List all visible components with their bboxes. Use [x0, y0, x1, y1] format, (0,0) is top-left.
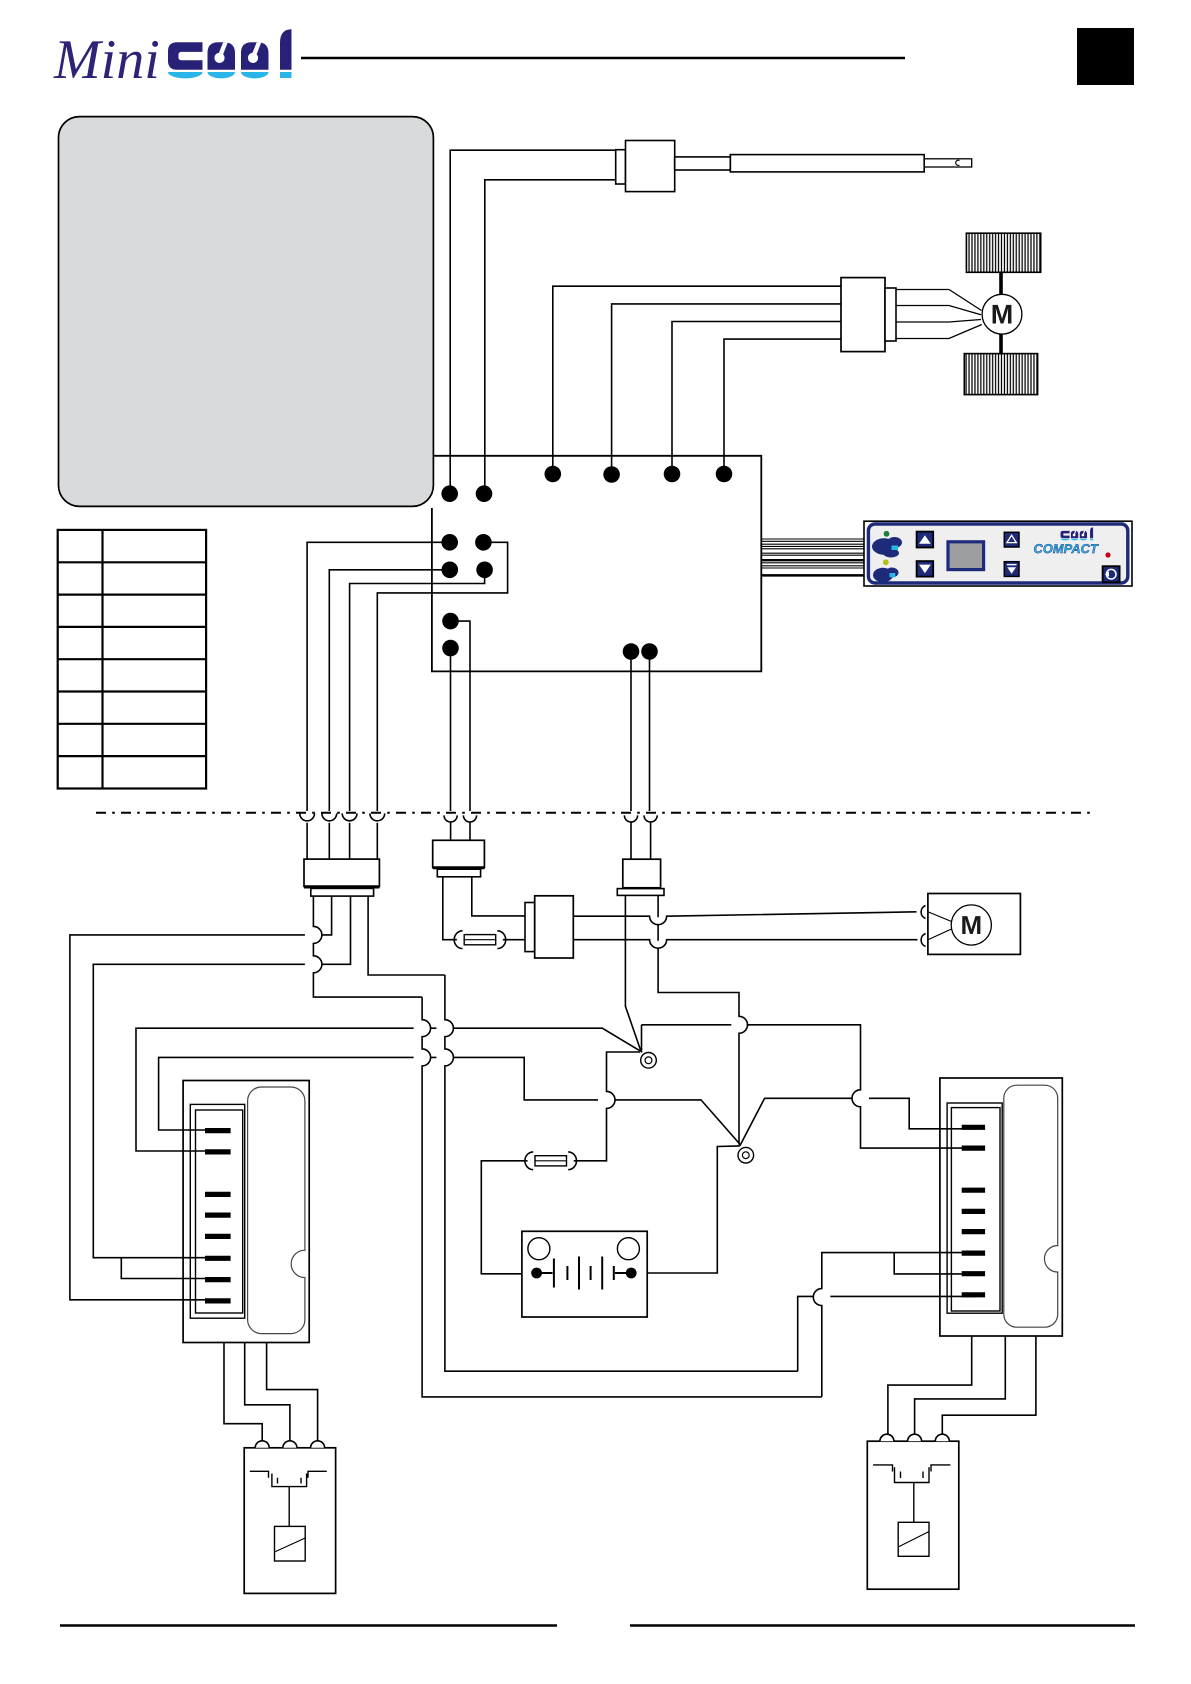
panel cool logo: [1061, 527, 1094, 540]
battery BT1 cells: [540, 1257, 628, 1290]
wire X2 pin2 to relay K1 bar8: [70, 896, 332, 1300]
wire trunk A down with hops: [422, 997, 822, 1397]
wire battery plus to ground G2: [631, 1146, 740, 1273]
panel LED red: [1105, 552, 1110, 557]
wire U1 pinF to bulkhead: [450, 648, 452, 811]
wire X4 pin2 to ground G2 with hops: [658, 895, 747, 1145]
footer rule left: [60, 1624, 557, 1627]
temperature sensor B1 probe body: [730, 155, 924, 172]
panel LCD display: [948, 542, 984, 570]
fuse F2 holder left: [525, 1152, 533, 1170]
wire branch to relay K1 bar7: [121, 1258, 218, 1279]
fuse F2 body: [535, 1156, 567, 1166]
panel LED green: [884, 531, 890, 537]
wire X3 pin1 to fuse F1: [443, 877, 457, 940]
wire trunk A rise to relay K2 bar6: [813, 1253, 975, 1397]
relay K2 cover: [1004, 1085, 1058, 1327]
wire U1 pinD to bulkhead: [377, 542, 507, 811]
wire K2 pin3 to float switch S2: [942, 1336, 1036, 1434]
wire X2 pin4 right: [368, 896, 445, 975]
motor M2 circle: [951, 905, 991, 945]
panel button down 1: [917, 561, 934, 577]
header rule: [301, 57, 905, 59]
panel blower icon small: [873, 568, 899, 583]
wire X3 pin2 to connector X5: [472, 877, 525, 916]
bulkhead grommet 8: [644, 815, 657, 822]
connector X2 base thick edge: [304, 885, 379, 888]
bulkhead grommet 6: [463, 815, 476, 822]
connector X5 body: [535, 896, 574, 958]
fan motor lead 2: [896, 306, 981, 315]
wire U1 pinE to bulkhead: [451, 621, 471, 811]
ground stud G1: [641, 1053, 657, 1069]
wire sensor lead 1: [450, 150, 616, 494]
wire fuse F1 to connector X5: [503, 939, 525, 941]
wire K1 pin3 to float switch S1: [267, 1343, 318, 1442]
connector X3 body: [433, 840, 485, 867]
wire U1 pin3 to fan connector: [672, 322, 841, 475]
bulkhead grommet 2: [322, 813, 337, 820]
panel button down 2: [1004, 562, 1019, 577]
connector X5 nose: [525, 903, 535, 952]
fan wheel upper: [966, 233, 1040, 272]
wires grommets to connector X3: [451, 822, 470, 840]
bulkhead grommet 3: [342, 813, 357, 820]
motor M1 circle: [982, 294, 1022, 334]
relay K2 terminal bars: [962, 1127, 985, 1295]
svg-text:M: M: [991, 300, 1014, 330]
fuse F1 holder right: [497, 931, 505, 949]
wire trunk B rise to relay K2 bar8: [798, 1296, 975, 1371]
S1 stem: [288, 1487, 290, 1527]
wire fuse F2 to ground G1 with hop: [574, 1052, 640, 1161]
temperature sensor B1 connector body: [626, 141, 675, 192]
bulkhead grommet 1: [300, 813, 315, 820]
wire to ground G2 with hop over fuse riser: [615, 1100, 739, 1144]
motor M2 plug contact upper: [921, 906, 925, 919]
footer rule right: [630, 1624, 1135, 1627]
float switch S1 box: [244, 1448, 335, 1594]
legend table: [58, 530, 206, 789]
fan motor lead 1: [896, 290, 982, 311]
relay K2 terminal frame: [947, 1103, 1002, 1313]
evaporator fan connector X1 body: [841, 278, 885, 352]
panel LED yellow: [883, 559, 889, 565]
control panel A1 frame: [868, 524, 1127, 583]
S1 coil: [275, 1526, 306, 1561]
bulkhead grommet 5: [444, 815, 457, 822]
wire grommets to connector X2: [307, 823, 377, 859]
ribbon cable to control panel: [762, 539, 867, 575]
wire U1 pin4 to fan connector: [724, 339, 841, 474]
motor M1 shaft lower: [999, 334, 1003, 355]
wire U1 pinG to bulkhead: [630, 652, 632, 812]
U1 pins: [441, 466, 732, 660]
condenser motor M2 box: [928, 894, 1021, 955]
relay K1 cover: [248, 1087, 305, 1334]
connector X3 base thick edge: [433, 866, 485, 869]
battery fuse F2 wire from battery minus: [481, 1161, 536, 1274]
relay box K1 outer: [183, 1081, 309, 1343]
wire K1 pin2 to float switch S1: [245, 1343, 290, 1442]
connector X4 body: [623, 859, 661, 888]
wire X5 to condenser motor upper: [573, 912, 916, 925]
relay K1 terminal bars: [205, 1131, 231, 1301]
connector X2 body: [304, 859, 379, 886]
motor M2 leads: [929, 912, 952, 940]
fan motor lead 4: [896, 325, 982, 339]
wire trunk B down with hops: [445, 975, 798, 1371]
S2 switch symbol: [873, 1465, 950, 1483]
temperature sensor B1 connector back: [616, 150, 626, 184]
legend grey rounded box: [59, 117, 434, 507]
S1 switch symbol: [250, 1471, 327, 1486]
wire K2 pin2 to float switch S2: [915, 1336, 1006, 1434]
fuse F1 body: [464, 935, 496, 945]
logo cool wordmark: [168, 29, 292, 78]
wire K1 pin1 to float switch S1: [224, 1343, 262, 1442]
motor M2 plug contact lower: [921, 934, 925, 947]
wire G1 stub: [641, 1025, 643, 1053]
wire U1 pinC to bulkhead: [350, 570, 485, 811]
wire X2 pin3 to relay K1 bar6: [93, 896, 350, 1258]
wire U1 pin2 to fan connector: [612, 304, 841, 474]
S2 terminal domes: [880, 1434, 949, 1441]
bulkhead dash-dot line: [96, 812, 1096, 814]
wire sensor lead 2: [485, 180, 616, 494]
wire U1 pinA to bulkhead: [307, 542, 450, 811]
panel blower icon large: [872, 537, 902, 558]
relay K1 cover notch: [303, 1251, 308, 1276]
wire K2 pin1 to float switch S2: [888, 1336, 972, 1434]
wire ground G1 to relay K2 bar2 with hop: [642, 1025, 976, 1148]
wires grommets to connector X4: [631, 822, 651, 859]
control unit box U1: [432, 456, 761, 672]
battery BT1 terminal circles: [528, 1238, 550, 1260]
motor M1 shaft upper: [999, 272, 1003, 295]
temperature sensor B1 tip hook: [956, 160, 960, 165]
wire X2 pin1 down with hops: [313, 896, 422, 997]
bulkhead grommet 7: [624, 815, 637, 822]
float switch S2 box: [867, 1441, 959, 1589]
wire X5 to condenser motor lower: [573, 940, 917, 949]
ground stud G2: [738, 1147, 754, 1163]
wire branch to relay K2 bar7: [894, 1253, 975, 1274]
panel button up 2: [1004, 532, 1019, 547]
panel button up 1: [917, 532, 934, 548]
svg-text:M: M: [960, 910, 982, 940]
relay K2 cover notch: [1055, 1247, 1060, 1272]
fan wheel lower: [964, 354, 1037, 395]
fan motor lead 3: [896, 320, 981, 323]
S2 stem: [913, 1483, 915, 1523]
connector X4 flange: [617, 889, 664, 896]
temperature sensor B1 tip: [924, 159, 972, 167]
fuse F1 holder left: [454, 931, 462, 949]
panel button on-off: [1103, 566, 1120, 582]
S2 coil: [898, 1522, 929, 1556]
header black square: [1077, 28, 1134, 85]
wire ground G2 to relay K2 bar1: [740, 1098, 975, 1146]
wire relay K1 bar1 riser: [159, 1057, 598, 1130]
connector X3 flange: [437, 869, 480, 877]
svg-text:COMPACT: COMPACT: [1034, 541, 1100, 556]
fuse F2 holder right: [568, 1152, 576, 1170]
wire relay K1 bar2 to ground G1: [136, 1028, 641, 1151]
wire U1 pinB to bulkhead: [329, 570, 450, 811]
temperature sensor B1 neck: [675, 157, 731, 170]
battery BT1 box: [522, 1231, 647, 1317]
svg-text:Mini: Mini: [53, 29, 160, 91]
evaporator fan connector X1 nose: [885, 288, 896, 341]
relay box K2 outer: [940, 1078, 1062, 1336]
wire X4 pin1 to ground G1: [625, 895, 641, 1051]
relay K1 terminal frame: [190, 1104, 244, 1318]
wire U1 pinH to bulkhead: [649, 652, 651, 812]
connector X2 flange: [311, 888, 374, 896]
wire U1 pin1 to fan connector: [553, 286, 841, 474]
S1 terminal domes: [255, 1441, 324, 1448]
bulkhead grommet 4: [370, 813, 385, 820]
control panel A1 outer plate: [864, 521, 1132, 586]
